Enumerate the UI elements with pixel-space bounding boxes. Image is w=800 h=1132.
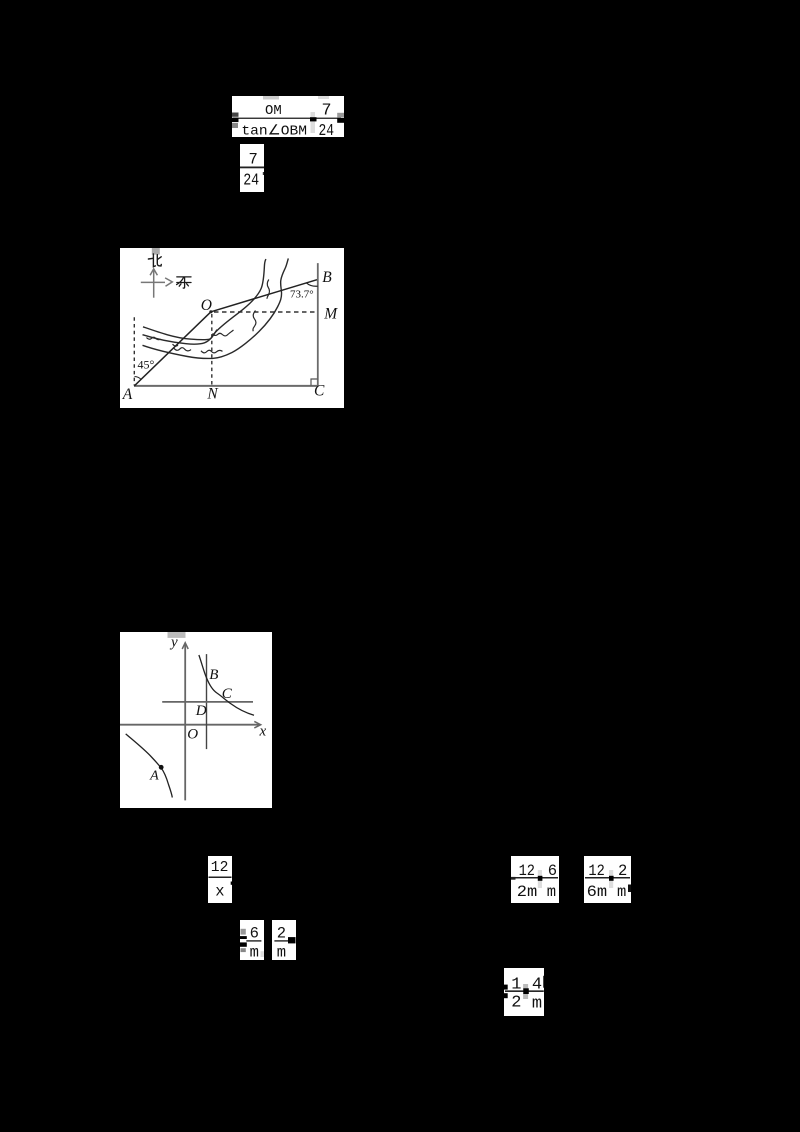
angle arc at A <box>135 376 142 379</box>
hyperbola branch Q1 <box>199 655 254 715</box>
grey smudge top edge <box>152 248 160 255</box>
svg-text:12: 12 <box>211 860 229 876</box>
svg-text:x: x <box>259 723 267 739</box>
svg-text:O: O <box>201 297 212 314</box>
svg-text:A: A <box>122 386 133 403</box>
dashed vertical from A <box>133 317 135 385</box>
svg-text:6m: 6m <box>587 883 608 901</box>
svg-text:A: A <box>149 768 159 783</box>
river lower bank <box>143 258 289 358</box>
北 character <box>148 254 161 267</box>
svg-text:73.7°: 73.7° <box>290 288 314 300</box>
svg-text:D: D <box>195 703 207 719</box>
river inner water line <box>143 329 218 344</box>
svg-text:m: m <box>249 943 258 960</box>
svg-text:6: 6 <box>548 862 557 880</box>
line A-O <box>134 311 211 385</box>
figure 2: hyperbola coordinate plane <box>120 632 272 808</box>
svg-text:x: x <box>215 882 224 900</box>
svg-text:4: 4 <box>532 975 542 994</box>
line O-B <box>211 279 317 311</box>
equation box 6: 6/m with = marks <box>240 920 264 960</box>
svg-text:2: 2 <box>618 862 627 880</box>
svg-text:m: m <box>532 994 542 1013</box>
equation box 2: 7/24 <box>240 144 264 192</box>
bottom line A-C <box>134 385 318 387</box>
dashed vertical O-N <box>211 314 213 386</box>
svg-text:O: O <box>187 726 198 742</box>
svg-text:7: 7 <box>322 101 332 120</box>
water squiggle 6 (vertical wave mid-right) <box>253 310 256 331</box>
svg-text:2: 2 <box>277 924 286 942</box>
figure 1: navigation diagram <box>120 248 344 408</box>
river upper bank <box>143 259 266 340</box>
svg-text:OM: OM <box>265 104 282 119</box>
x-axis <box>120 723 260 725</box>
equation box 5: 12/6m = 2/m <box>584 856 631 903</box>
svg-text:M: M <box>323 305 338 322</box>
svg-text:m: m <box>617 883 626 901</box>
svg-text:m: m <box>277 943 286 960</box>
hyperbola branch Q3 <box>126 734 173 798</box>
grey smudge mid <box>311 112 316 133</box>
point A dot <box>159 765 164 770</box>
svg-text:2m: 2m <box>517 883 538 901</box>
svg-text:C: C <box>314 382 325 399</box>
svg-text:B: B <box>322 269 332 286</box>
东 character <box>177 277 191 288</box>
dashed horizontal O-M <box>214 311 318 313</box>
svg-text:24: 24 <box>243 170 259 189</box>
water squiggle 5 (right of N line) <box>213 330 234 336</box>
svg-text:6: 6 <box>249 924 258 942</box>
equation box 8: 1/2 = 4/m <box>504 968 544 1016</box>
right angle mark at C <box>311 379 318 386</box>
svg-text:B: B <box>209 667 218 683</box>
angle arc at B <box>306 282 318 285</box>
equation box 4: 12/2m = 6/m <box>511 856 559 903</box>
water squiggle 3 (under AO crossing) <box>174 347 191 350</box>
water squiggle 2 <box>173 344 179 346</box>
water squiggle 7 (short wave top-right) <box>267 279 269 298</box>
svg-text:2: 2 <box>511 993 521 1012</box>
grey smudge top <box>263 96 279 100</box>
left edge marks <box>232 112 239 116</box>
water squiggle 4 <box>201 350 223 353</box>
svg-text:N: N <box>206 385 219 402</box>
compass north arrow <box>141 269 173 298</box>
vertical line B-C <box>317 263 319 386</box>
line through C and D (horizontal) <box>162 701 253 703</box>
svg-text:7: 7 <box>249 150 258 168</box>
grey smudge top <box>168 632 186 638</box>
right edge marks <box>337 112 344 117</box>
equation box 7: 2/m with = mark right <box>272 920 296 960</box>
equals blob middle <box>310 117 317 121</box>
fraction bar <box>233 117 341 118</box>
equation box 3: 12/x <box>208 856 232 903</box>
svg-text:24: 24 <box>319 122 335 138</box>
svg-text:m: m <box>547 883 556 901</box>
svg-text:tan∠OBM: tan∠OBM <box>241 123 307 137</box>
O point <box>209 310 212 313</box>
water squiggle 1 <box>147 337 161 339</box>
equation box 1: OM/tan∠OBM = 7/24 <box>232 96 344 138</box>
svg-text:45°: 45° <box>138 357 155 371</box>
y-axis <box>184 644 186 800</box>
line through B and D (vertical) <box>206 654 208 749</box>
svg-text:C: C <box>222 686 233 702</box>
svg-text:y: y <box>169 634 178 650</box>
